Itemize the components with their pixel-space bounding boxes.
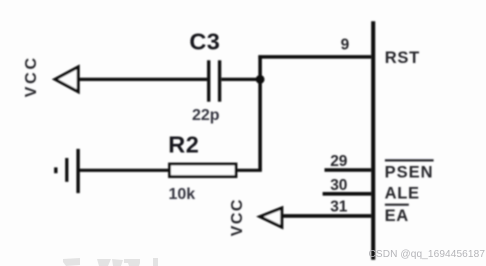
svg-text:29: 29 xyxy=(330,153,348,170)
svg-text:ALE: ALE xyxy=(385,185,420,203)
svg-text:VCC: VCC xyxy=(23,55,40,97)
svg-text:VCC: VCC xyxy=(229,198,246,236)
svg-text:C3: C3 xyxy=(189,29,220,55)
svg-text:RST: RST xyxy=(385,49,420,67)
svg-text:CSDN @qq_1694456187: CSDN @qq_1694456187 xyxy=(369,249,486,260)
svg-text:30: 30 xyxy=(330,177,347,194)
svg-text:31: 31 xyxy=(330,199,348,216)
svg-text:R2: R2 xyxy=(168,132,199,158)
svg-text:PSEN: PSEN xyxy=(385,164,434,182)
svg-text:EA: EA xyxy=(385,207,409,225)
svg-text:10k: 10k xyxy=(169,186,196,203)
svg-text:9: 9 xyxy=(341,37,350,54)
svg-text:22p: 22p xyxy=(192,107,220,124)
